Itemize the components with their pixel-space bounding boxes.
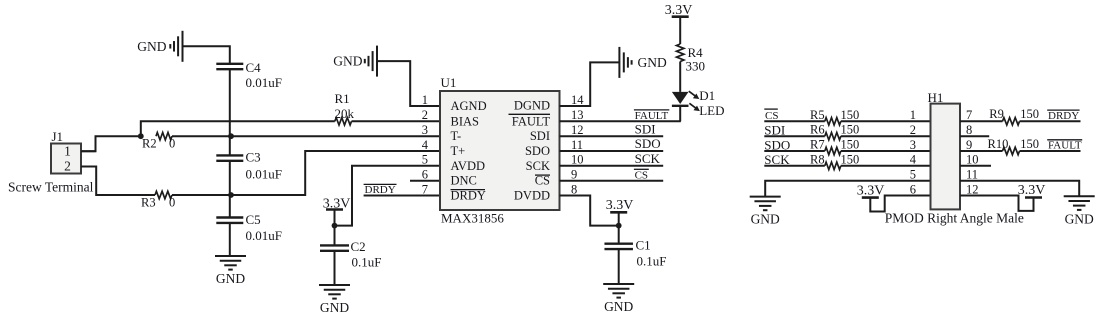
ground right of DGND symbol -> none; 3.3V at C1 [606,198,634,226]
wire SDI to R6 [764,135,825,137]
svg-text:CS: CS [765,110,778,122]
wire 3.3V to H1 pin 6 [870,196,930,212]
svg-text:DRDY: DRDY [365,184,396,196]
ground below C2 [319,285,350,315]
svg-text:R8: R8 [810,152,825,166]
svg-text:GND: GND [333,54,362,69]
power 3.3V at H1 pin 12 [1018,183,1046,198]
svg-text:6: 6 [910,182,916,196]
connector H1 body [928,90,961,209]
svg-text:SDO: SDO [525,144,550,158]
wire FAULT net from U1 pin 13 to LED [560,120,681,122]
svg-text:12: 12 [966,182,979,196]
power 3.3V above R4 [665,3,693,44]
capacitor C3 [216,136,282,195]
wire SCK net [560,165,664,167]
svg-text:Screw Terminal: Screw Terminal [8,179,94,194]
svg-text:150: 150 [841,123,860,137]
stub U1 pin 6 DNC [410,180,440,182]
wire R7 to H1 pin 3 [841,150,931,152]
wire H1 pin 12 to 3.3V [960,196,1034,211]
svg-text:DRDY: DRDY [451,189,486,203]
wire node A up to BIAS line and right to R1 [141,121,335,136]
svg-text:SDI: SDI [530,129,550,143]
net label SDO [635,136,661,151]
svg-text:1: 1 [422,93,428,107]
wire ground to U1 pin 1 (AGND) [377,61,440,106]
wire DRDY to U1 pin 7 [364,195,440,197]
wire T+ to U1 pin 4 [231,151,440,195]
resistor R5 [810,108,859,125]
svg-text:AVDD: AVDD [451,159,486,173]
svg-text:3.3V: 3.3V [606,198,634,213]
svg-text:PMOD Right Angle Male: PMOD Right Angle Male [885,211,1024,226]
U1 right pin numbers 14-8 [571,93,584,197]
H1 right pin numbers 7-12 [966,108,979,196]
resistor R4 [677,44,706,74]
wire T- to U1 pin 3 [231,135,440,137]
net label DRDY at U1 pin 7 [364,184,397,196]
capacitor C5 [216,195,282,256]
svg-text:T+: T+ [451,144,466,158]
wire J1 pin1 to node A [81,136,138,151]
U1 left pin labels [451,99,487,203]
net label SDI at H1 [764,123,785,138]
wire R6 to H1 pin 2 [841,135,931,137]
resistor R9 [989,107,1039,125]
svg-text:DVDD: DVDD [514,189,550,203]
wire R10 to FAULT label [1020,150,1081,152]
svg-text:U1: U1 [441,75,457,90]
svg-text:1: 1 [910,108,916,122]
svg-text:12: 12 [571,123,584,137]
svg-text:5: 5 [910,168,916,182]
svg-text:3: 3 [422,123,428,137]
wire SDI net [560,135,664,137]
wire R8 to H1 pin 4 [841,165,931,167]
junction node B (T- net) [228,133,234,139]
svg-text:BIAS: BIAS [451,114,480,128]
svg-text:R6: R6 [810,123,825,137]
svg-text:0.01uF: 0.01uF [246,228,282,243]
junction node A (J1.1 / BIAS / R2) [138,133,144,139]
svg-text:GND: GND [604,299,633,314]
svg-text:14: 14 [571,93,584,107]
svg-text:7: 7 [422,182,428,196]
svg-text:C4: C4 [246,60,262,75]
svg-text:C3: C3 [246,150,261,165]
wire DVDD: U1 pin 8 to 3.3V/C1 node [560,196,619,226]
svg-text:0: 0 [169,196,175,210]
svg-text:DNC: DNC [451,174,477,188]
net label SCK at H1 [764,152,790,167]
net label CS [634,169,649,181]
svg-text:GND: GND [137,39,166,54]
ground below C1 [603,284,634,314]
svg-text:R1: R1 [335,91,350,106]
svg-text:MAX31856: MAX31856 [441,210,504,225]
resistor R1 [335,91,355,125]
wire C4 bottom to node B [229,69,231,136]
svg-text:SCK: SCK [635,151,661,166]
svg-text:330: 330 [686,59,706,74]
svg-text:R5: R5 [810,108,825,122]
svg-text:R2: R2 [142,136,157,150]
ground below C5 [215,256,246,286]
resistor R7 [810,138,859,155]
svg-text:CS: CS [635,169,648,181]
svg-text:13: 13 [571,108,584,122]
svg-text:SCK: SCK [526,159,550,173]
U1 right pin labels [509,99,551,203]
svg-text:0: 0 [169,136,175,150]
svg-text:CS: CS [535,174,550,188]
svg-text:11: 11 [571,138,583,152]
svg-text:8: 8 [966,123,972,137]
svg-text:11: 11 [966,168,978,182]
resistor R3 [141,191,175,209]
wire SDO net [560,150,664,152]
resistor R10 [988,137,1040,155]
resistor R8 [810,152,859,169]
power 3.3V at H1 pin 6 [857,184,885,199]
wire LED cathode to FAULT net [679,106,681,122]
wire ground to C4 top [183,46,230,64]
label Screw Terminal [8,179,94,194]
svg-text:D1: D1 [699,88,715,103]
ground at H1 pin 5 [750,197,781,227]
wire R2 to node B [172,135,231,137]
IC U1 MAX31856 body [440,75,560,225]
svg-text:9: 9 [571,168,577,182]
svg-text:FAULT: FAULT [512,114,551,128]
resistor R6 [810,123,859,140]
wire R5 to H1 pin 1 [841,120,931,122]
svg-text:4: 4 [910,153,917,167]
capacitor C2 [320,226,381,285]
svg-text:T-: T- [451,129,462,143]
svg-text:5: 5 [422,153,428,167]
net label FAULT right [1047,140,1082,152]
svg-text:0.1uF: 0.1uF [352,254,382,269]
wire J1 pin2 down to R3 [81,167,155,196]
svg-text:GND: GND [638,55,667,70]
svg-text:C5: C5 [246,212,261,227]
svg-text:1: 1 [64,144,71,159]
wire R3 to node C [172,194,231,196]
svg-text:150: 150 [841,152,860,166]
net label CS at H1 [764,109,778,122]
svg-text:GND: GND [751,212,780,227]
wire DGND: U1 pin 14 to ground [560,62,620,106]
svg-text:R10: R10 [988,137,1009,151]
junction node C (T+ net) [228,192,234,198]
wire H1 pin 7 to R9 [960,120,1003,122]
svg-text:150: 150 [1020,137,1039,151]
svg-text:J1: J1 [52,129,64,144]
svg-text:4: 4 [422,138,429,152]
wire H1 pin 9 to R10 [960,150,1003,152]
svg-text:H1: H1 [928,90,944,105]
svg-text:10: 10 [966,153,979,167]
stub H1 pin 8 [960,135,989,137]
svg-text:20k: 20k [335,106,355,121]
wire H1 pin 11 to ground [960,181,1079,197]
svg-text:8: 8 [571,182,577,196]
junction node AVDD/C2 [332,223,338,229]
svg-text:FAULT: FAULT [1048,140,1082,152]
svg-text:2: 2 [910,123,916,137]
ground left of U1 [333,46,377,77]
svg-text:GND: GND [1065,211,1094,226]
wire R4 to LED [679,62,681,92]
svg-text:GND: GND [216,271,245,286]
wire CS to R5 [764,120,825,122]
H1 left pin numbers 1-6 [910,108,917,196]
net label FAULT [634,110,669,122]
svg-text:R7: R7 [810,138,825,152]
svg-text:7: 7 [966,108,972,122]
svg-text:R3: R3 [141,196,156,210]
wire SDO to R7 [764,150,825,152]
svg-text:150: 150 [1020,107,1039,121]
wire SCK to R8 [764,165,825,167]
capacitor C1 [604,226,666,284]
svg-text:SDO: SDO [635,136,661,151]
stub H1 pin 10 [960,165,991,167]
capacitor C4 [216,60,282,90]
svg-text:FAULT: FAULT [635,110,669,122]
svg-text:LED: LED [699,103,724,118]
svg-text:150: 150 [841,108,860,122]
U1 left pin numbers 1-7 [422,93,429,197]
label PMOD Right Angle Male [885,211,1024,226]
wire R9 to DRDY label [1020,120,1081,122]
svg-text:C1: C1 [636,238,651,253]
net label SDI [635,121,656,136]
resistor R2 [142,133,175,151]
svg-text:SDI: SDI [635,121,656,136]
net label SCK [635,151,661,166]
svg-text:6: 6 [422,168,428,182]
LED D1 [672,88,725,118]
svg-text:0.01uF: 0.01uF [246,166,282,181]
svg-text:GND: GND [320,300,349,315]
svg-text:DRDY: DRDY [1048,110,1079,122]
wire AVDD: U1 pin 5 to 3.3V/C2 node [335,166,441,226]
ground at DGND [619,47,667,78]
svg-text:10: 10 [571,153,584,167]
wire H1 pin 5 to ground [765,181,930,197]
svg-text:AGND: AGND [451,99,487,113]
net label DRDY right [1047,110,1079,122]
svg-text:2: 2 [64,158,71,173]
junction node DVDD/C1 [616,223,622,229]
svg-text:150: 150 [841,138,860,152]
svg-text:3.3V: 3.3V [1018,183,1046,198]
svg-text:9: 9 [966,138,972,152]
ground top-left [137,31,182,62]
connector J1 [51,129,96,174]
svg-text:3: 3 [910,138,916,152]
ground at H1 pin 11 [1064,196,1095,226]
net label SDO at H1 [764,137,790,152]
svg-text:DGND: DGND [514,99,550,113]
svg-text:0.01uF: 0.01uF [246,75,282,90]
svg-text:R9: R9 [989,107,1004,121]
wire CS net [560,180,664,182]
wire R1 to U1 pin 2 (BIAS) [352,120,441,122]
svg-text:0.1uF: 0.1uF [637,254,667,269]
power 3.3V at C2 [323,196,351,225]
svg-text:C2: C2 [351,239,366,254]
svg-text:2: 2 [422,108,428,122]
